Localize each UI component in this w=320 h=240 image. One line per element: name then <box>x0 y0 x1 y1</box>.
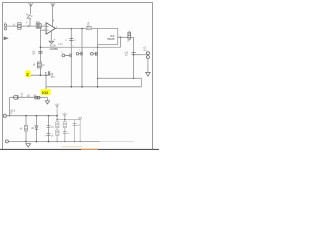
branch circle-cap at rail x82 <box>76 52 82 56</box>
rail x48.5 <box>48 116 50 142</box>
supply arrow top of column x80.2 <box>79 118 82 120</box>
wire stem V+ to op-amp <box>51 6 53 26</box>
svg-text:LM358: LM358 <box>50 47 58 51</box>
yellow net label 2 <box>41 87 51 95</box>
corner down and ground <box>46 97 48 101</box>
cap2 on x48.5 <box>47 133 51 135</box>
long wire y87 <box>46 86 142 88</box>
stem of C down <box>56 108 58 141</box>
rail x82 <box>81 29 83 87</box>
op-amp input marks <box>47 26 49 30</box>
resistor R2 <box>36 24 41 28</box>
rail x97.6 below box <box>97 44 99 86</box>
resistor R7 <box>128 31 131 40</box>
cap C11 on rail <box>132 53 136 55</box>
wire from label1 <box>31 74 49 76</box>
svg-text:out: out <box>143 49 147 52</box>
connector X3 circles <box>146 52 149 59</box>
IC2 box <box>98 29 118 45</box>
vertical from pin down <box>120 37 122 47</box>
wire stem from VCC <box>29 6 31 14</box>
diode circle component <box>14 95 18 99</box>
mid column x74.6 <box>74 120 76 142</box>
resistor on x26 <box>24 125 27 131</box>
svg-text:78L05: 78L05 <box>107 37 115 41</box>
output wire from op-amp <box>55 28 97 30</box>
bottom bus wire <box>8 141 100 143</box>
arrow terminal below pin2 <box>4 37 8 40</box>
op-amp U1 triangle <box>46 23 55 35</box>
rail x133.6 <box>133 37 135 78</box>
feedback rail x40 <box>39 26 41 75</box>
branch circle-cap at rail x97.6 <box>90 52 97 56</box>
loop wire y78.3 <box>98 77 142 79</box>
power symbol mid C <box>55 103 59 108</box>
svg-text:2 k2: 2 k2 <box>58 43 63 46</box>
electrolytic cap C9 <box>45 71 50 76</box>
branch circle-cap at rail x71.3 <box>62 54 71 58</box>
mid row1 resistor on x57.1 <box>56 122 59 128</box>
arrow terminal below X3 <box>146 72 151 76</box>
rail x36.4 <box>35 116 37 142</box>
stem of D down <box>64 117 66 141</box>
svg-text:IO2: IO2 <box>42 91 48 95</box>
connector X1 pin 2 <box>4 28 6 30</box>
wire y115.7 <box>6 115 57 117</box>
output rail x71.3 <box>70 29 72 87</box>
diode on x36.4 <box>35 126 38 130</box>
loop right edge <box>141 78 143 87</box>
twin circles component <box>35 96 40 99</box>
inverting input branch <box>40 29 46 31</box>
rail x26 <box>25 116 27 142</box>
mid top rail <box>57 119 80 121</box>
ground below bus <box>26 144 31 147</box>
long mid wire y47.3 <box>40 46 120 48</box>
wire to connector X3 <box>134 54 147 56</box>
diode D1 top-left <box>26 14 31 20</box>
stem from X3 pin2 down <box>147 59 149 73</box>
mid row2 cap on x64.8 <box>63 131 67 133</box>
mid row2 resistor on x57.1 <box>56 130 59 135</box>
power symbol VCC above op-amp <box>51 2 56 6</box>
power symbol mid D <box>63 112 67 117</box>
wire from connector to op-amp <box>7 25 46 27</box>
resistor R1 <box>18 23 21 29</box>
junction <box>28 25 30 27</box>
op-amp V- stem <box>50 31 52 41</box>
cap1 on x48.5 <box>47 125 51 127</box>
yellow net label 1 <box>26 71 31 78</box>
lower-left wire y97.3 <box>10 96 48 98</box>
resistor R6 on output wire <box>87 26 92 29</box>
cap C4 on rail x71.3 <box>69 39 73 41</box>
mid row1 resistor on x64.8 <box>63 122 66 128</box>
power symbol VCC top-left <box>28 2 33 6</box>
connector X1 pin 1 <box>4 24 6 26</box>
svg-text:22k: 22k <box>36 20 41 24</box>
resistor R5 on rail <box>38 62 42 68</box>
wire stem to main wire <box>29 19 31 26</box>
corner down to x9.6 <box>9 97 11 115</box>
ground arrow below op-amp <box>49 41 54 43</box>
bottom window edge <box>0 149 159 150</box>
capacitor C3 on rail <box>38 51 42 53</box>
IC2 output pin <box>118 36 128 38</box>
svg-text:10u: 10u <box>50 76 55 79</box>
bottom-left connector circle <box>3 114 6 117</box>
mid row1 cap on x74.6 <box>73 123 77 125</box>
